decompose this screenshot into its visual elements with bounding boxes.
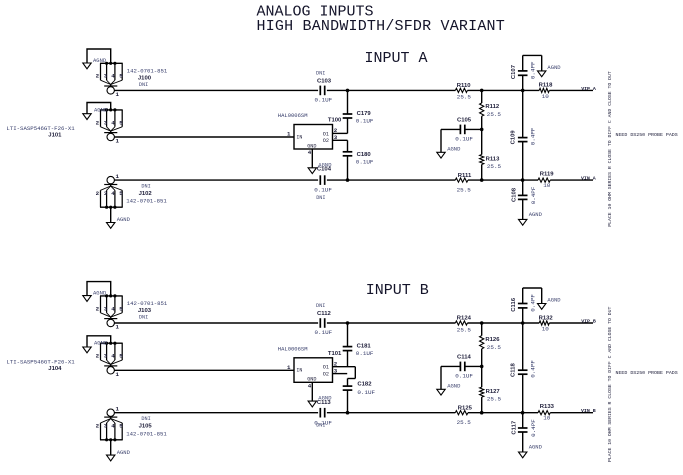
svg-text:142-0701-851: 142-0701-851 [127,300,168,307]
svg-text:142-0701-851: 142-0701-851 [127,68,168,75]
svg-text:25.5: 25.5 [457,419,472,426]
svg-text:AGND: AGND [529,211,543,218]
svg-text:DNI: DNI [316,422,325,428]
svg-text:0.4PF: 0.4PF [530,186,537,204]
svg-text:3: 3 [104,190,108,197]
svg-text:PLACE 10 OHM SERIES R CLOSE TO: PLACE 10 OHM SERIES R CLOSE TO DIFF C AN… [607,71,613,227]
svg-text:3: 3 [104,305,108,312]
svg-text:25.5: 25.5 [457,186,472,193]
svg-text:R118: R118 [539,83,553,89]
svg-text:5: 5 [119,119,123,126]
svg-text:DNI: DNI [316,70,325,76]
svg-text:DNI: DNI [139,315,148,321]
svg-text:J101: J101 [48,133,62,139]
svg-text:DNI: DNI [316,195,325,201]
svg-text:DNI: DNI [139,82,148,88]
svg-text:3: 3 [104,73,108,80]
svg-text:AGND: AGND [93,57,107,64]
svg-text:VIN A: VIN A [581,176,596,182]
svg-text:0.1UF: 0.1UF [315,329,333,336]
svg-text:4: 4 [111,190,115,197]
svg-text:5: 5 [119,190,123,197]
svg-text:C113: C113 [317,400,331,406]
svg-text:INPUT A: INPUT A [365,50,428,67]
svg-text:AGND: AGND [447,383,461,390]
svg-text:4: 4 [111,119,115,126]
svg-text:25.5: 25.5 [457,326,472,333]
svg-text:VIP A: VIP A [581,86,596,92]
svg-text:2: 2 [96,73,100,80]
svg-text:142-0701-851: 142-0701-851 [126,430,167,437]
svg-text:R124: R124 [457,316,472,322]
svg-text:AGND: AGND [93,290,107,297]
svg-text:4: 4 [308,383,312,390]
svg-text:25.5: 25.5 [487,111,502,118]
svg-text:5: 5 [119,423,123,430]
svg-text:1: 1 [287,131,291,138]
svg-text:DNI: DNI [316,303,325,309]
svg-text:IN: IN [296,368,302,374]
svg-text:1: 1 [116,91,120,98]
svg-text:HAL0006SM: HAL0006SM [278,345,308,352]
svg-text:T101: T101 [328,351,342,357]
svg-text:R133: R133 [540,404,555,410]
svg-text:VIN B: VIN B [581,408,596,414]
svg-text:NEED DS250 PROBE PADS: NEED DS250 PROBE PADS [616,370,678,376]
svg-text:3: 3 [104,119,108,126]
svg-text:AGND: AGND [447,146,461,153]
svg-text:AGND: AGND [547,64,561,71]
svg-text:AGND: AGND [547,297,561,304]
svg-text:C104: C104 [317,167,332,173]
svg-text:R112: R112 [485,104,499,110]
svg-text:2: 2 [96,119,100,126]
svg-text:C112: C112 [317,311,331,317]
svg-text:3: 3 [104,353,108,360]
svg-text:25.5: 25.5 [487,396,502,403]
svg-text:0.1UF: 0.1UF [356,118,374,125]
svg-text:HAL0006SM: HAL0006SM [278,112,308,119]
svg-text:J105: J105 [139,424,153,430]
svg-text:2: 2 [96,423,100,430]
svg-text:0.4PF: 0.4PF [530,419,537,437]
svg-text:AGND: AGND [94,106,108,113]
svg-text:0.1UF: 0.1UF [455,136,473,143]
svg-text:25.5: 25.5 [487,344,502,351]
svg-text:0.4PF: 0.4PF [530,294,537,312]
svg-text:1: 1 [287,364,291,371]
svg-text:1: 1 [116,138,120,145]
svg-text:C180: C180 [357,152,372,158]
svg-text:LTI-SASP546GT-F26-X1: LTI-SASP546GT-F26-X1 [6,125,75,132]
svg-text:10: 10 [543,415,551,422]
svg-text:PLACE 10 OHM SERIES R CLOSE TO: PLACE 10 OHM SERIES R CLOSE TO DIFF C AN… [607,306,613,462]
svg-text:C181: C181 [357,343,372,349]
svg-text:10: 10 [542,326,550,333]
svg-text:DNI: DNI [141,184,150,190]
svg-text:5: 5 [119,353,123,360]
svg-text:O1: O1 [323,365,329,371]
svg-text:5: 5 [119,305,123,312]
svg-text:C105: C105 [457,118,472,124]
svg-text:AGND: AGND [529,444,543,451]
svg-text:T100: T100 [328,118,342,124]
svg-text:J102: J102 [139,191,153,197]
svg-text:1: 1 [116,324,120,331]
svg-text:4: 4 [111,73,115,80]
svg-text:1: 1 [116,173,120,180]
svg-text:25.5: 25.5 [487,163,502,170]
svg-text:INPUT B: INPUT B [366,282,429,299]
svg-text:4: 4 [111,305,115,312]
svg-text:3: 3 [104,423,108,430]
svg-text:R127: R127 [486,389,501,395]
svg-text:DNI: DNI [141,416,150,422]
svg-text:0.4PF: 0.4PF [530,61,537,79]
svg-text:0.1UF: 0.1UF [357,389,375,396]
svg-text:C114: C114 [457,355,471,361]
svg-text:10: 10 [542,93,550,100]
svg-text:0.1UF: 0.1UF [455,373,473,380]
svg-text:C118: C118 [511,363,517,377]
svg-text:R126: R126 [485,337,500,343]
svg-text:142-0701-851: 142-0701-851 [126,198,167,205]
svg-text:R132: R132 [539,315,554,321]
svg-text:C109: C109 [511,130,517,145]
svg-text:AGND: AGND [117,449,131,456]
svg-text:C182: C182 [357,381,372,387]
svg-text:AGND: AGND [117,216,131,223]
svg-text:R110: R110 [457,83,471,89]
svg-text:0.1UF: 0.1UF [356,350,374,357]
svg-text:2: 2 [96,305,100,312]
svg-text:1: 1 [116,371,120,378]
svg-text:10: 10 [543,182,551,189]
svg-text:25.5: 25.5 [457,94,472,101]
svg-text:O2: O2 [323,372,329,378]
svg-text:R111: R111 [458,173,472,179]
svg-text:0.4PF: 0.4PF [529,127,536,145]
svg-text:4: 4 [111,423,115,430]
svg-text:NEED DS250 PROBE PADS: NEED DS250 PROBE PADS [616,132,678,138]
svg-text:R119: R119 [540,172,554,178]
svg-text:VIP B: VIP B [581,318,596,324]
svg-text:LTI-SASP546GT-F26-X1: LTI-SASP546GT-F26-X1 [6,358,75,365]
svg-text:C108: C108 [512,187,518,202]
svg-text:4: 4 [111,353,115,360]
svg-text:J103: J103 [138,308,152,314]
svg-text:C103: C103 [317,79,332,85]
svg-text:0.4PF: 0.4PF [529,360,536,378]
svg-text:AGND: AGND [94,340,108,347]
svg-text:2: 2 [96,353,100,360]
svg-text:HIGH BANDWIDTH/SFDR VARIANT: HIGH BANDWIDTH/SFDR VARIANT [257,18,505,35]
svg-text:1: 1 [116,406,120,413]
svg-text:IN: IN [296,134,302,140]
svg-text:0.1UF: 0.1UF [315,97,333,104]
svg-text:C117: C117 [512,420,518,434]
svg-text:5: 5 [119,73,123,80]
svg-text:C107: C107 [511,64,517,79]
svg-text:J104: J104 [48,366,62,372]
svg-text:0.1UF: 0.1UF [356,158,374,165]
svg-text:O2: O2 [323,138,329,144]
svg-text:0.1UF: 0.1UF [314,187,332,194]
svg-text:J100: J100 [138,76,152,82]
svg-text:4: 4 [308,149,312,156]
svg-text:C116: C116 [511,297,517,311]
svg-text:2: 2 [96,190,100,197]
svg-text:R113: R113 [486,157,500,163]
svg-text:O1: O1 [323,131,329,137]
svg-text:C179: C179 [357,111,372,117]
svg-text:R125: R125 [458,406,473,412]
